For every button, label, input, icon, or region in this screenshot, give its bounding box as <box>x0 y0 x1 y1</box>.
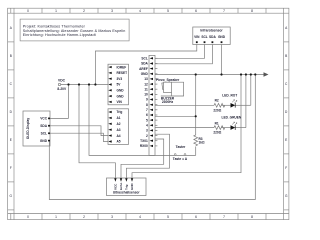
wire IR GND down to GND line <box>221 45 223 75</box>
resistor R1 220 ohm <box>214 126 225 130</box>
junction VDC rail / ultrasound VCC branch <box>78 83 80 85</box>
svg-text:8: 8 <box>251 215 253 219</box>
wire V1 rail to OLED VCC <box>68 85 70 119</box>
svg-text:4: 4 <box>146 124 148 128</box>
wire US GND to GND line <box>132 75 241 179</box>
wire pin7 to R3 junction <box>155 115 196 117</box>
svg-text:SDA: SDA <box>141 62 148 66</box>
svg-text:1kΩ: 1kΩ <box>199 141 206 145</box>
frame outer border <box>8 8 289 219</box>
power supply node VDC 8-20V <box>58 83 60 85</box>
svg-text:8: 8 <box>251 9 253 13</box>
svg-text:7: 7 <box>146 108 148 112</box>
frame column ticks bottom <box>11 214 266 220</box>
wire V2 rail to ultrasound VCC <box>79 85 115 179</box>
arduino uno analog header (Trig A1-A5) <box>108 109 129 145</box>
svg-text:Infrarotsensor: Infrarotsensor <box>200 28 223 32</box>
wire GND line <box>155 74 264 76</box>
svg-text:3V3: 3V3 <box>117 77 123 81</box>
junction GND line / LED_ROT cathode <box>250 73 252 75</box>
svg-text:IOREF: IOREF <box>117 65 127 69</box>
svg-text:RX00: RX00 <box>140 144 148 148</box>
svg-text:Trig: Trig <box>117 110 123 114</box>
svg-text:SDA: SDA <box>40 124 47 128</box>
arduino uno digital header (SCL SDA AREF GND 13-0) <box>149 55 155 155</box>
wire LED_ROT cathode up <box>250 75 252 106</box>
svg-text:6: 6 <box>195 9 197 13</box>
junction GND line / R3 branch <box>195 73 197 75</box>
wire OLED GND loop to GND line <box>49 75 255 200</box>
svg-text:5: 5 <box>146 118 148 122</box>
wire pin5 LED_GRUEN row <box>155 127 214 129</box>
wire VDC rail to 5V <box>61 84 108 86</box>
wire pin4 to US Trig <box>126 134 169 178</box>
wire OLED SDA to A4 <box>49 126 108 136</box>
svg-text:3: 3 <box>111 9 113 13</box>
wire pin9 LED_ROT row <box>155 104 214 106</box>
junction GND line / IR sensor GND <box>220 73 222 75</box>
svg-text:R2: R2 <box>215 99 219 103</box>
frame inner border lines <box>8 12 289 14</box>
wire digital pin stubs <box>155 57 157 59</box>
wire IR SCL to arduino SCL <box>155 45 205 59</box>
junction node pin7 / R3 top <box>195 115 197 117</box>
frame row ticks right <box>284 42 289 210</box>
svg-text:10: 10 <box>144 93 148 97</box>
svg-text:VDC: VDC <box>58 79 66 83</box>
svg-text:VIN: VIN <box>117 100 123 104</box>
svg-text:3: 3 <box>111 215 113 219</box>
svg-text:SCL: SCL <box>41 131 47 135</box>
resistor R2 220 ohm <box>214 103 225 107</box>
OLED display module (OLED-Display VCC SDA SCL GND) <box>23 111 50 146</box>
LED LED_ROT <box>222 93 237 107</box>
svg-text:B: B <box>10 54 12 58</box>
pushbutton S1 contacts on Taster net <box>174 154 186 156</box>
svg-text:2300Hz: 2300Hz <box>162 100 174 104</box>
svg-text:Echo: Echo <box>119 182 123 190</box>
svg-text:Ultraschallsensor: Ultraschallsensor <box>113 191 141 195</box>
svg-text:9: 9 <box>146 98 148 102</box>
wire LED_GRUEN cathode up <box>245 75 247 128</box>
svg-text:AREF: AREF <box>139 67 148 71</box>
svg-text:8-20V: 8-20V <box>57 87 67 91</box>
svg-text:A5: A5 <box>117 140 121 144</box>
junction VDC rail / IR sensor VIN branch <box>94 83 96 85</box>
svg-text:5: 5 <box>167 9 169 13</box>
svg-text:SCL: SCL <box>141 57 147 61</box>
svg-text:1: 1 <box>55 215 57 219</box>
svg-text:220Ω: 220Ω <box>213 109 221 113</box>
svg-text:Piezo_Speaker: Piezo_Speaker <box>156 78 180 82</box>
svg-text:13: 13 <box>144 77 148 81</box>
svg-text:LED_ROT: LED_ROT <box>222 93 237 97</box>
title block (project text) <box>20 19 129 41</box>
svg-text:VIN: VIN <box>194 35 200 39</box>
svg-text:SDA: SDA <box>209 35 216 39</box>
svg-text:A2: A2 <box>117 122 121 126</box>
svg-text:B: B <box>285 54 287 58</box>
svg-text:2: 2 <box>146 134 148 138</box>
svg-text:A4: A4 <box>117 134 121 138</box>
svg-text:RESET: RESET <box>117 71 128 75</box>
junction GND line / LED_GRUEN cathode <box>245 73 247 75</box>
svg-text:GND: GND <box>40 139 48 143</box>
svg-text:GND: GND <box>141 72 149 76</box>
svg-text:Einrichtung: Hochschule Hamm: Einrichtung: Hochschule Hamm-Lippstadt <box>23 33 96 37</box>
svg-text:OLED-Display: OLED-Display <box>26 118 30 139</box>
wire V3 rail to H1 taster <box>89 85 196 156</box>
frame ruler labels <box>10 9 289 219</box>
wire R3 bottom to H1 <box>195 147 197 156</box>
junction GND line / OLED GND loop <box>254 73 256 75</box>
svg-text:GND: GND <box>117 89 125 93</box>
svg-text:A1: A1 <box>117 116 121 120</box>
svg-text:SCL: SCL <box>201 35 207 39</box>
svg-text:GND: GND <box>130 183 134 191</box>
junction VDC rail / OLED VCC branch <box>67 83 69 85</box>
arduino uno power header U1 (IOREF RESET 3V3 5V GND GND VIN) <box>108 64 129 105</box>
wire OLED SCL to A5 <box>49 133 108 141</box>
wire R3 net vertical <box>195 75 197 136</box>
svg-text:E: E <box>10 138 12 142</box>
svg-text:E: E <box>285 138 287 142</box>
wire buzzer loop <box>161 82 184 96</box>
resistor R3 1k ohm <box>194 135 198 146</box>
svg-text:4: 4 <box>139 9 141 13</box>
svg-text:Taste = A: Taste = A <box>173 157 188 161</box>
svg-text:3: 3 <box>146 129 148 133</box>
junction GND line / ultrasound GND <box>240 73 242 75</box>
svg-text:4: 4 <box>139 215 141 219</box>
svg-text:6: 6 <box>195 215 197 219</box>
svg-text:8: 8 <box>146 103 148 107</box>
junction VDC rail / Taster supply branch <box>88 83 90 85</box>
svg-text:6: 6 <box>146 113 148 117</box>
svg-text:F: F <box>285 166 287 170</box>
svg-text:LED_GRUEN: LED_GRUEN <box>222 115 242 119</box>
svg-text:VCC: VCC <box>113 183 117 190</box>
svg-text:2: 2 <box>83 9 85 13</box>
svg-text:Taster: Taster <box>176 145 186 149</box>
svg-text:TX01: TX01 <box>140 139 148 143</box>
svg-text:7: 7 <box>223 215 225 219</box>
svg-text:VCC: VCC <box>40 117 47 121</box>
frame row ticks left <box>8 42 14 210</box>
svg-text:1: 1 <box>55 9 57 13</box>
svg-text:F: F <box>10 166 12 170</box>
svg-text:R1: R1 <box>215 121 219 125</box>
svg-text:0: 0 <box>27 9 29 13</box>
ultrasound sensor module (Ultraschallsensor VCC Echo Trig GND) <box>107 178 147 196</box>
svg-text:0: 0 <box>27 215 29 219</box>
svg-text:Trig: Trig <box>124 184 128 190</box>
svg-text:5: 5 <box>167 215 169 219</box>
frame column ticks top <box>11 8 266 13</box>
svg-text:GND: GND <box>117 94 125 98</box>
svg-text:2: 2 <box>83 215 85 219</box>
svg-text:220Ω: 220Ω <box>213 131 221 135</box>
svg-text:GND: GND <box>218 35 226 39</box>
infrared sensor module (Infrarotsensor VIN SCL SDA GND) <box>193 27 230 45</box>
svg-text:7: 7 <box>223 9 225 13</box>
wire IR SDA to arduino SDA <box>155 45 212 64</box>
LED LED_GRUEN <box>222 115 242 130</box>
svg-text:12: 12 <box>144 82 148 86</box>
wire pin3 to US Echo <box>121 139 164 178</box>
ground net arrow GND <box>264 72 269 77</box>
svg-text:A3: A3 <box>117 128 121 132</box>
wire IR VIN to rail <box>95 45 196 85</box>
svg-text:11: 11 <box>144 87 148 91</box>
